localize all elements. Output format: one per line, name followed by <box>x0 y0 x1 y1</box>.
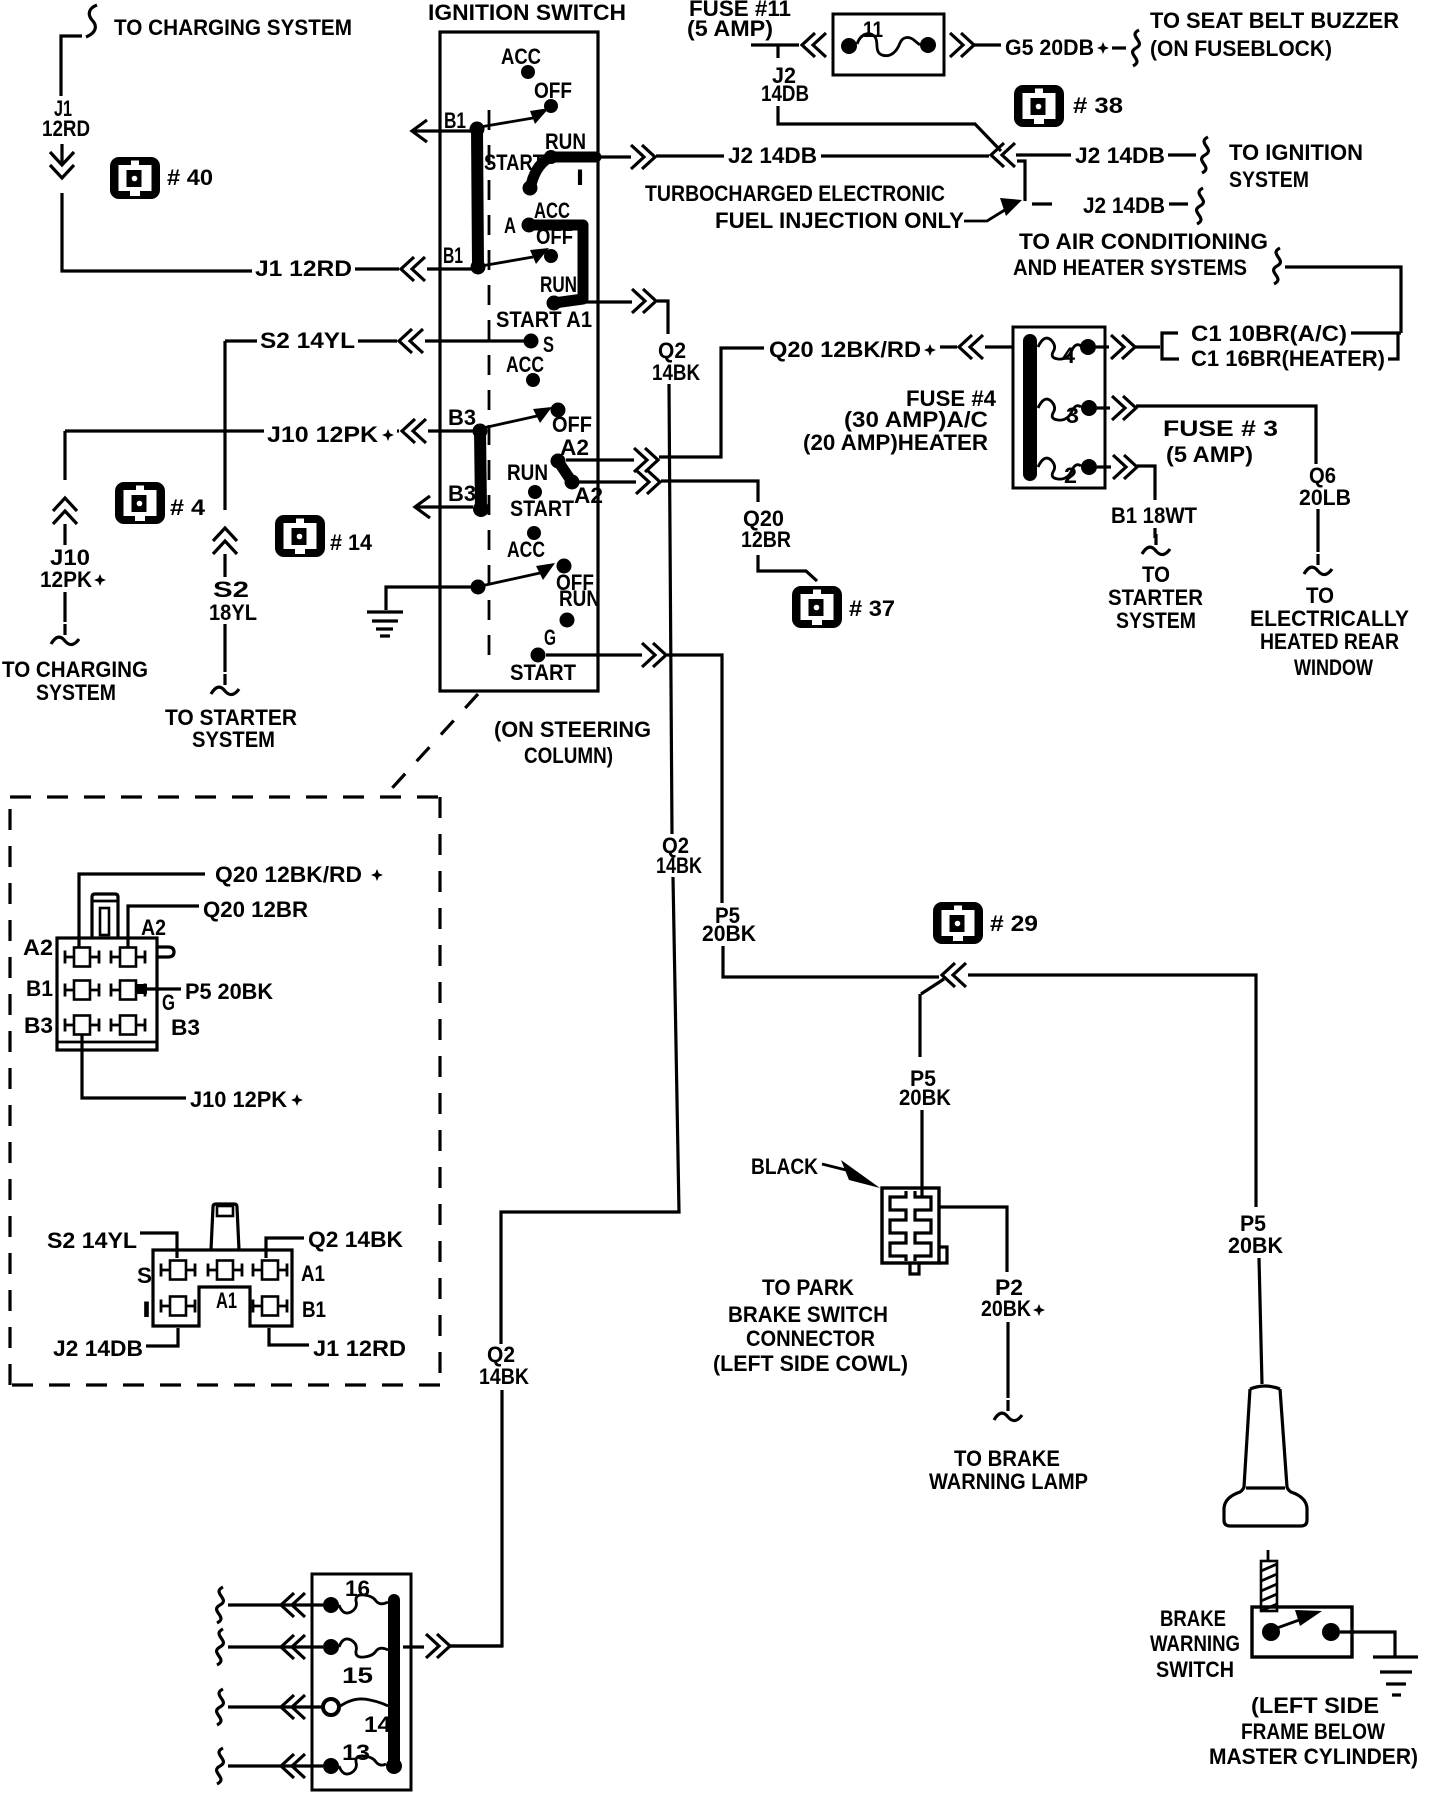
svg-text:ACC: ACC <box>506 352 544 377</box>
svg-text:J2 14DB: J2 14DB <box>728 143 817 168</box>
svg-text:C1 16BR(HEATER): C1 16BR(HEATER) <box>1191 346 1385 371</box>
svg-text:TO: TO <box>1142 562 1170 587</box>
wire fuse 2 output B1 18WT <box>1097 455 1198 555</box>
label START (section 3) <box>510 496 574 521</box>
wire into fuse 16 <box>217 1587 323 1623</box>
svg-text:OFF: OFF <box>534 78 572 103</box>
svg-text:SWITCH: SWITCH <box>1156 1657 1234 1682</box>
connector icon #40 <box>110 157 213 199</box>
terminal label B1 (top) <box>444 108 466 133</box>
fuse #11 label <box>687 0 791 41</box>
wire Q20 12BR from A2 lower <box>578 470 817 581</box>
thick bar B3 <box>473 424 490 518</box>
wire Q2 14BK to pin A1 <box>266 1227 403 1258</box>
wiper B3 to OFF with arrowhead <box>483 407 552 428</box>
label START A1 <box>496 307 592 332</box>
svg-text:4: 4 <box>1062 343 1076 368</box>
node label TO PARK BRAKE SWITCH CONNECTOR (LEFT SIDE COWL) <box>713 1275 908 1376</box>
svg-text:3: 3 <box>1066 403 1079 428</box>
svg-text:TO BRAKE: TO BRAKE <box>954 1446 1060 1471</box>
svg-text:# 14: # 14 <box>330 530 373 555</box>
terminal label A2 (lower) <box>574 483 603 508</box>
wiper B1 lower to OFF with arrowhead <box>481 248 549 266</box>
pin A1 right (5-pin) <box>253 1261 325 1287</box>
svg-text:RUN: RUN <box>559 586 600 611</box>
wire J1 12RD top-left to charging system <box>61 5 97 96</box>
connector icon #4 <box>115 482 206 524</box>
wire J10 12PK horizontal <box>65 419 474 447</box>
contact RUN (section 3) <box>507 460 548 499</box>
ignition switch internal dashed divider <box>488 110 491 660</box>
svg-text:(20 AMP)HEATER: (20 AMP)HEATER <box>803 430 988 455</box>
park brake switch connector <box>882 1188 947 1274</box>
svg-text:B3: B3 <box>171 1015 200 1040</box>
svg-text:A1: A1 <box>216 1288 237 1313</box>
svg-text:S: S <box>137 1263 152 1288</box>
svg-text:# 37: # 37 <box>849 596 895 621</box>
svg-text:TO SEAT BELT BUZZER: TO SEAT BELT BUZZER <box>1150 8 1399 33</box>
node label TO CHARGING SYSTEM (top) <box>114 15 352 40</box>
label (ON STEERING COLUMN) <box>494 717 651 768</box>
svg-text:BRAKE: BRAKE <box>1160 1606 1226 1631</box>
wire P5 20BK to right branch <box>968 975 1283 1384</box>
wire Q20 12BK/RD from A2 upper <box>566 335 1013 472</box>
ground (brake warning switch) <box>1373 1657 1418 1695</box>
svg-text:SYSTEM: SYSTEM <box>1116 608 1196 633</box>
connector icon #29 <box>933 902 1038 944</box>
svg-text:J10 12PK: J10 12PK <box>190 1087 287 1112</box>
svg-text:STARTER: STARTER <box>1108 585 1203 610</box>
thick bar A1 C-shape <box>522 218 584 311</box>
svg-text:J1 12RD: J1 12RD <box>313 1336 406 1361</box>
label BRAKE WARNING SWITCH <box>1150 1606 1240 1682</box>
label START (section 4) <box>510 660 577 685</box>
dashed wire J2 14DB to A/C and heater <box>1032 188 1203 224</box>
svg-text:AND HEATER SYSTEMS: AND HEATER SYSTEMS <box>1013 255 1247 280</box>
svg-text:18YL: 18YL <box>209 600 257 625</box>
wire P5 20BK down to park brake connector <box>899 994 951 1196</box>
svg-text:IGNITION SWITCH: IGNITION SWITCH <box>428 0 626 25</box>
contact G <box>531 625 557 663</box>
svg-text:J2 14DB: J2 14DB <box>1083 193 1165 218</box>
wire Q20 12BR to pin A2 right <box>128 897 308 947</box>
wire J10 12PK vertical to charging system <box>40 431 106 645</box>
pin B1 (5-pin) <box>253 1297 326 1323</box>
wire J2 14DB from I output <box>596 143 989 169</box>
svg-text:HEATED REAR: HEATED REAR <box>1260 629 1399 654</box>
svg-text:20BK: 20BK <box>1228 1233 1283 1258</box>
connector icon #37 <box>792 586 895 628</box>
svg-text:START: START <box>510 496 574 521</box>
svg-text:Q2 14BK: Q2 14BK <box>308 1227 403 1252</box>
rubber boot over brake warning switch <box>1224 1386 1307 1526</box>
fuse 14 <box>323 1699 392 1737</box>
svg-text:# 40: # 40 <box>167 165 213 190</box>
svg-text:Q20 12BK/RD: Q20 12BK/RD <box>215 862 362 887</box>
svg-text:12BR: 12BR <box>741 527 791 552</box>
contact RUN (section 4) <box>559 586 600 628</box>
svg-text:J2 14DB: J2 14DB <box>53 1336 143 1361</box>
svg-text:14DB: 14DB <box>761 81 809 106</box>
svg-text:OFF: OFF <box>536 224 573 249</box>
svg-text:15: 15 <box>342 1663 373 1688</box>
svg-text:A2: A2 <box>574 483 603 508</box>
svg-text:A1: A1 <box>301 1261 325 1286</box>
wire label Q6 20LB <box>1299 463 1351 510</box>
svg-text:START A1: START A1 <box>496 307 592 332</box>
svg-text:OFF: OFF <box>552 412 592 437</box>
wire S2 14YL horizontal <box>225 328 525 353</box>
wire J2 14DB right of connector <box>1016 137 1208 173</box>
terminal label I <box>576 165 584 190</box>
terminal label B3 (top) <box>448 405 476 430</box>
wire into fuse 13 <box>217 1748 323 1784</box>
svg-text:B3: B3 <box>448 481 476 506</box>
svg-text:RUN: RUN <box>540 272 577 297</box>
svg-text:12PK: 12PK <box>40 567 92 592</box>
node label TO IGNITION SYSTEM <box>1229 140 1363 192</box>
pin S (5-pin) <box>137 1261 195 1289</box>
svg-text:Q20 12BR: Q20 12BR <box>203 897 308 922</box>
note TURBOCHARGED ELECTRONIC FUEL INJECTION ONLY with arrow <box>645 181 1022 233</box>
wire S2 18YL vertical to starter system <box>209 341 257 695</box>
svg-text:(ON STEERING: (ON STEERING <box>494 717 651 742</box>
pin I (5-pin) <box>142 1297 195 1323</box>
label (LEFT SIDE FRAME BELOW MASTER CYLINDER) <box>1209 1693 1418 1769</box>
fuse block (fuses 4/3/2) box <box>1013 327 1105 488</box>
bottom fuse box (fuses 16/15/14/13) <box>312 1574 411 1790</box>
single arrow stub B3 bottom <box>415 496 473 518</box>
pin A2 left (6-pin) <box>23 935 99 967</box>
svg-text:START: START <box>510 660 577 685</box>
inline connector chevron on P5 line #29 <box>921 963 966 994</box>
svg-text:TO: TO <box>1306 583 1334 608</box>
svg-text:S2: S2 <box>213 577 249 602</box>
wire into fuse 11 <box>751 33 826 58</box>
svg-text:ACC: ACC <box>507 537 545 562</box>
label BLACK with arrow <box>751 1154 880 1188</box>
svg-text:B1: B1 <box>443 243 463 268</box>
pin A1 center (5-pin) <box>208 1261 242 1314</box>
wire into fuse 14 <box>217 1689 323 1725</box>
svg-text:B3: B3 <box>24 1013 53 1038</box>
svg-text:B1 18WT: B1 18WT <box>1111 503 1198 528</box>
wire fuse 15 output to Q2 <box>403 1634 502 1658</box>
thick wiper A2-A2 <box>558 461 580 490</box>
svg-text:(5 AMP): (5 AMP) <box>687 16 773 41</box>
contact START dot (section 1) <box>523 181 538 196</box>
wire from heater systems squiggle to C1 junction <box>1274 248 1401 333</box>
single arrow stub B1 top <box>412 120 471 142</box>
fuse 3 element <box>1038 399 1097 428</box>
svg-text:(30 AMP)A/C: (30 AMP)A/C <box>844 407 988 432</box>
pin B3 right (6-pin) <box>111 1015 200 1040</box>
wire J2 14DB to pin I <box>53 1328 178 1361</box>
svg-text:14: 14 <box>364 1712 392 1737</box>
wire J1 12RD to pin B1 <box>269 1328 406 1361</box>
ground (steering column) <box>367 612 403 636</box>
svg-text:TURBOCHARGED ELECTRONIC: TURBOCHARGED ELECTRONIC <box>645 181 945 206</box>
svg-text:J10 12PK: J10 12PK <box>267 422 378 447</box>
svg-text:12RD: 12RD <box>42 116 90 141</box>
contact ACC (section 4) <box>507 526 545 562</box>
svg-text:20BK: 20BK <box>702 921 756 946</box>
pin B1 left (6-pin) <box>26 976 99 1001</box>
terminal label B1 (lower) <box>443 243 463 268</box>
svg-text:A2: A2 <box>560 435 589 460</box>
contact RUN (section 1) <box>544 129 586 164</box>
wire Q6 down to heated rear window <box>1304 509 1332 575</box>
svg-text:CONNECTOR: CONNECTOR <box>746 1326 875 1351</box>
svg-text:FUEL INJECTION ONLY: FUEL INJECTION ONLY <box>715 208 964 233</box>
node label TO CHARGING SYSTEM (bottom-left) <box>2 657 148 705</box>
contact OFF (section 2) <box>536 224 573 263</box>
wiper ground to OFF with arrowhead <box>471 563 556 595</box>
svg-text:A: A <box>504 213 516 238</box>
node label TO BRAKE WARNING LAMP <box>929 1446 1088 1494</box>
dashed detail box <box>10 797 440 1385</box>
svg-text:S2 14YL: S2 14YL <box>260 328 355 353</box>
wire label C1 10BR(A/C) <box>1191 321 1401 346</box>
svg-text:MASTER CYLINDER): MASTER CYLINDER) <box>1209 1744 1418 1769</box>
wire label J1 12RD (horizontal) <box>255 256 352 281</box>
svg-text:(5 AMP): (5 AMP) <box>1166 442 1253 467</box>
fuse 3 label <box>1163 416 1278 467</box>
svg-text:14BK: 14BK <box>652 360 700 385</box>
brake warning switch plunger (threaded) <box>1261 1550 1277 1611</box>
fuse block label FUSE #4 <box>803 386 997 455</box>
svg-text:WINDOW: WINDOW <box>1294 655 1373 680</box>
5-pin connector detail body <box>153 1204 292 1326</box>
pin A2 right (6-pin) <box>111 915 166 967</box>
wiper B1 to OFF with arrowhead <box>480 108 549 127</box>
wire fuse 4 output to C1 bracket <box>1096 333 1179 359</box>
svg-text:TO PARK: TO PARK <box>762 1275 854 1300</box>
label J2 14DB stub <box>761 63 809 106</box>
svg-text:FUSE # 3: FUSE # 3 <box>1163 416 1278 441</box>
svg-text:11: 11 <box>863 17 883 42</box>
svg-text:J2 14DB: J2 14DB <box>1075 143 1165 168</box>
contact OFF (section 4) <box>556 559 594 596</box>
svg-text:20BK: 20BK <box>981 1296 1031 1321</box>
contact ACC (section 3) <box>506 352 544 387</box>
svg-text:TO CHARGING: TO CHARGING <box>2 657 148 682</box>
inline connector chevron on J2 line <box>991 143 1015 167</box>
svg-text:COLUMN): COLUMN) <box>524 743 613 768</box>
wire J2 14DB stub down and across <box>778 106 1001 151</box>
fuse 13 <box>323 1740 386 1774</box>
thick bar B1 <box>470 122 486 275</box>
fuse 16 <box>323 1576 388 1613</box>
svg-text:SYSTEM: SYSTEM <box>36 680 116 705</box>
node label TO SEAT BELT BUZZER (ON FUSEBLOCK) <box>1150 8 1399 61</box>
contact A2 upper dot <box>551 454 566 469</box>
wire Q20 12BK/RD to pin A2 <box>79 862 383 948</box>
svg-text:Q20 12BK/RD: Q20 12BK/RD <box>769 337 921 362</box>
svg-text:# 38: # 38 <box>1073 93 1123 118</box>
terminal label A2 (upper) <box>560 435 589 460</box>
wire into fuse 15 <box>217 1629 323 1665</box>
svg-text:G: G <box>162 990 175 1015</box>
brake warning switch box <box>1252 1607 1352 1657</box>
svg-text:ACC: ACC <box>534 198 570 223</box>
contact S dot <box>524 332 555 357</box>
svg-text:SYSTEM: SYSTEM <box>1229 167 1309 192</box>
svg-text:P5 20BK: P5 20BK <box>185 979 273 1004</box>
wire S2 14YL to pin S <box>47 1228 177 1258</box>
terminal label B3 (lower) <box>448 481 476 506</box>
svg-text:FRAME BELOW: FRAME BELOW <box>1241 1719 1385 1744</box>
pin B3 left (6-pin) <box>24 1013 99 1038</box>
wire J1 12RD vertical with chevrons <box>50 144 252 271</box>
contact OFF (section 3) <box>551 403 593 438</box>
svg-text:20BK: 20BK <box>899 1085 951 1110</box>
terminal label A (section 2) <box>504 213 516 238</box>
svg-text:14BK: 14BK <box>656 853 702 878</box>
svg-text:16: 16 <box>345 1576 370 1601</box>
svg-text:J1 12RD: J1 12RD <box>255 256 352 281</box>
svg-text:B1: B1 <box>444 108 466 133</box>
svg-text:BLACK: BLACK <box>751 1154 818 1179</box>
svg-text:B3: B3 <box>448 405 476 430</box>
svg-text:G5 20DB: G5 20DB <box>1005 35 1094 60</box>
svg-text:TO CHARGING SYSTEM: TO CHARGING SYSTEM <box>114 15 352 40</box>
elbow below J2 connector <box>1017 161 1025 201</box>
wire fuse 11 to seat belt buzzer <box>950 30 1139 66</box>
pin G right (6-pin) <box>111 981 175 1016</box>
svg-text:(LEFT SIDE: (LEFT SIDE <box>1251 1693 1379 1718</box>
svg-text:ACC: ACC <box>501 44 541 69</box>
node label TO AIR CONDITIONING AND HEATER SYSTEMS <box>1013 229 1268 280</box>
svg-text:TO IGNITION: TO IGNITION <box>1229 140 1363 165</box>
svg-text:A2: A2 <box>141 915 166 940</box>
node label TO STARTER SYSTEM (left) <box>165 705 297 752</box>
svg-text:B1: B1 <box>26 976 53 1001</box>
dashed leader from switch box to detail box <box>383 694 478 798</box>
svg-text:RUN: RUN <box>507 460 548 485</box>
svg-text:I: I <box>142 1297 151 1322</box>
svg-text:TO AIR CONDITIONING: TO AIR CONDITIONING <box>1019 229 1268 254</box>
thick wiper START-RUN-I output <box>530 157 596 190</box>
connector icon #38 <box>1014 85 1123 127</box>
svg-text:(LEFT SIDE COWL): (LEFT SIDE COWL) <box>713 1351 908 1376</box>
fuse 2 element <box>1038 458 1097 488</box>
wire fuse 3 output to Q6 <box>1097 396 1316 464</box>
svg-text:14BK: 14BK <box>479 1364 529 1389</box>
contact ACC (section 1) <box>501 44 541 79</box>
ignition switch box <box>428 0 626 691</box>
wire Q2 14BK from START A1 output <box>449 289 702 1646</box>
svg-text:WARNING: WARNING <box>1150 1631 1240 1656</box>
svg-text:C1 10BR(A/C): C1 10BR(A/C) <box>1191 321 1347 346</box>
svg-text:B1: B1 <box>302 1297 326 1322</box>
svg-text:13: 13 <box>342 1740 370 1765</box>
wire J10 12PK from pin B3 <box>82 1035 303 1112</box>
wire P5 20BK from pin G <box>137 979 273 1004</box>
thick bus bar in fuse block <box>1023 341 1037 474</box>
svg-text:I: I <box>576 165 584 190</box>
wire brake switch to ground <box>1340 1632 1395 1656</box>
wire to ground symbol <box>386 587 471 610</box>
6-pin connector detail body <box>57 894 174 1050</box>
svg-text:G: G <box>544 625 556 650</box>
svg-text:# 4: # 4 <box>170 495 206 520</box>
svg-text:# 29: # 29 <box>990 911 1038 936</box>
svg-text:ELECTRICALLY: ELECTRICALLY <box>1250 606 1409 631</box>
wire J1 12RD into ignition switch B1 <box>355 257 474 281</box>
node label TO STARTER SYSTEM (right) <box>1108 562 1203 633</box>
node label TO ELECTRICALLY HEATED REAR WINDOW <box>1250 583 1409 680</box>
wire label C1 16BR(HEATER) <box>1191 333 1398 371</box>
thick bus bar bottom fuse box <box>386 1600 402 1774</box>
svg-text:(ON FUSEBLOCK): (ON FUSEBLOCK) <box>1150 36 1332 61</box>
svg-text:2: 2 <box>1064 463 1077 488</box>
wire P5 20BK from G output <box>546 643 939 977</box>
fuse 11 box <box>833 14 944 75</box>
wire P2 20BK from connector <box>940 1207 1045 1421</box>
fuse 4 element <box>1038 338 1096 368</box>
connector icon #14 <box>275 515 373 557</box>
svg-text:S: S <box>543 332 554 357</box>
svg-text:20LB: 20LB <box>1299 485 1351 510</box>
svg-text:WARNING LAMP: WARNING LAMP <box>929 1469 1088 1494</box>
svg-text:S2 14YL: S2 14YL <box>47 1228 137 1253</box>
contact ACC (section 2) <box>534 198 570 223</box>
svg-text:BRAKE SWITCH: BRAKE SWITCH <box>728 1302 888 1327</box>
wire label J1 12RD (vertical) <box>42 96 90 141</box>
fuse 15 <box>323 1639 388 1688</box>
svg-text:SYSTEM: SYSTEM <box>192 727 275 752</box>
contact OFF (section 1) <box>534 78 572 113</box>
label START (section 1) <box>484 150 544 175</box>
contact RUN (section 2) <box>540 272 577 297</box>
svg-text:A2: A2 <box>23 935 53 960</box>
